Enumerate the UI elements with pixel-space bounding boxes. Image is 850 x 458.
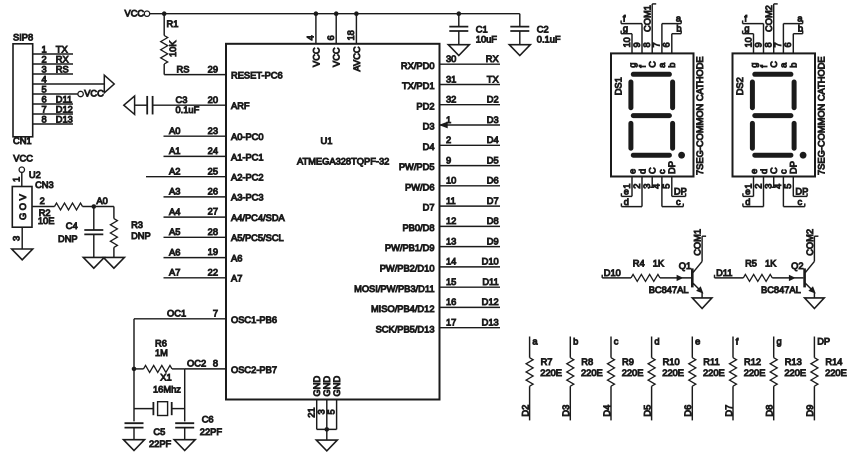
svg-text:A6: A6 <box>169 247 180 257</box>
svg-text:9: 9 <box>632 42 642 47</box>
svg-text:e: e <box>624 187 629 197</box>
svg-text:A5: A5 <box>169 227 180 237</box>
wire net D10 pin 14 <box>440 257 501 267</box>
svg-text:R5: R5 <box>745 258 757 268</box>
svg-text:MISO/PB4/D12: MISO/PB4/D12 <box>371 304 435 314</box>
svg-text:DNP: DNP <box>58 234 78 244</box>
svg-text:10: 10 <box>743 37 753 47</box>
ground at Q1 emitter <box>692 298 712 309</box>
svg-text:9: 9 <box>753 42 763 47</box>
svg-text:A5/PC5/SCL: A5/PC5/SCL <box>231 233 284 243</box>
ground under C4 <box>83 257 104 268</box>
svg-text:D11: D11 <box>56 94 72 104</box>
svg-text:D8: D8 <box>765 405 775 417</box>
svg-text:A6: A6 <box>231 253 242 263</box>
svg-text:29: 29 <box>208 64 218 74</box>
svg-text:C1: C1 <box>476 24 488 34</box>
transistor Q2 BC847AL <box>761 236 815 298</box>
svg-text:10E: 10E <box>38 216 55 226</box>
svg-text:PB0/D8: PB0/D8 <box>402 223 434 233</box>
svg-text:CN3: CN3 <box>35 180 54 190</box>
wire net D3 pin 1 <box>440 115 501 128</box>
svg-text:SCK/PB5/D13: SCK/PB5/D13 <box>376 324 435 334</box>
resistor R9 220E with node c and wire D4 <box>602 336 644 420</box>
node e flag DS1 <box>621 177 632 197</box>
svg-text:R11: R11 <box>703 357 719 367</box>
svg-text:a: a <box>657 62 667 68</box>
svg-text:8: 8 <box>42 114 47 124</box>
segments digit 8 of DS1 <box>631 74 685 158</box>
resistor R1 10K <box>161 14 179 75</box>
svg-text:c: c <box>779 169 789 174</box>
svg-text:Q1: Q1 <box>679 261 691 271</box>
svg-text:1K: 1K <box>653 258 665 268</box>
node a flag DS1 <box>662 13 682 53</box>
U1 bottom pin 5 GND <box>326 376 342 430</box>
svg-text:ATMEGA328TQPF-32: ATMEGA328TQPF-32 <box>297 156 389 166</box>
svg-text:C2: C2 <box>537 24 549 34</box>
svg-text:5: 5 <box>783 184 793 189</box>
wire OC2 <box>185 359 226 369</box>
svg-text:b: b <box>798 24 803 34</box>
wire RX at CN1 <box>33 54 73 64</box>
node g flag DS1 <box>621 24 632 54</box>
svg-text:b: b <box>667 63 677 68</box>
svg-text:18: 18 <box>346 30 356 40</box>
resistor R12 220E with node f and wire D7 <box>724 336 766 420</box>
svg-text:21: 21 <box>307 407 317 417</box>
svg-text:R4: R4 <box>633 258 645 268</box>
svg-text:D7: D7 <box>423 203 435 213</box>
wire ARF to chip <box>153 104 226 106</box>
svg-text:COM2: COM2 <box>764 5 774 32</box>
DS2 bottom pin numbers <box>743 184 793 189</box>
svg-text:20: 20 <box>208 95 218 105</box>
svg-text:GND: GND <box>332 376 342 397</box>
svg-text:OSC1-PB6: OSC1-PB6 <box>231 315 277 325</box>
svg-text:a: a <box>779 62 789 68</box>
pin C stub DS2 <box>772 177 776 188</box>
svg-text:8: 8 <box>642 42 652 47</box>
svg-text:220E: 220E <box>784 368 806 378</box>
svg-text:220E: 220E <box>744 368 766 378</box>
transistor Q1 BC847AL <box>649 236 703 298</box>
svg-text:X1: X1 <box>160 372 171 382</box>
wire A0 <box>164 126 227 136</box>
U1 bottom pin 3 GND <box>317 376 333 430</box>
svg-text:ARF: ARF <box>231 101 250 111</box>
wire net D8 pin 12 <box>440 216 501 226</box>
wire net D6 pin 10 <box>440 176 501 186</box>
svg-text:6: 6 <box>42 94 47 104</box>
svg-text:220E: 220E <box>622 368 644 378</box>
svg-text:C5: C5 <box>153 427 165 437</box>
svg-text:a: a <box>797 13 803 23</box>
svg-text:28: 28 <box>208 227 218 237</box>
resistor R14 220E with node DP and wire D9 <box>805 336 847 420</box>
svg-text:f: f <box>744 13 747 23</box>
svg-text:7SEG-COMMON CATHODE: 7SEG-COMMON CATHODE <box>816 56 826 175</box>
svg-text:A7: A7 <box>169 268 180 278</box>
svg-text:1: 1 <box>11 177 21 182</box>
svg-text:BC847AL: BC847AL <box>761 285 801 295</box>
resistor R10 220E with node d and wire D5 <box>642 336 684 420</box>
svg-text:D4: D4 <box>487 135 499 145</box>
capacitor C2 0.1uF <box>510 14 561 45</box>
svg-text:A4/PC4/SDA: A4/PC4/SDA <box>231 213 286 223</box>
svg-text:R12: R12 <box>744 357 761 367</box>
svg-text:0.1uF: 0.1uF <box>537 34 561 44</box>
svg-text:PD2: PD2 <box>416 101 434 111</box>
net COM1 at DS1 <box>643 4 657 54</box>
svg-text:DP: DP <box>789 161 799 174</box>
svg-text:GND: GND <box>322 376 332 397</box>
capacitor C3 0.1uF <box>135 95 200 115</box>
svg-text:7SEG-COMMON CATHODE: 7SEG-COMMON CATHODE <box>695 56 705 175</box>
wire D11 to R5 <box>715 268 744 278</box>
wire base of Q1 <box>660 276 691 281</box>
svg-text:22: 22 <box>208 267 218 277</box>
svg-text:C6: C6 <box>202 415 214 425</box>
svg-text:d: d <box>624 197 629 207</box>
node d flag DS2 <box>743 177 764 207</box>
capacitor C4 DNP <box>58 207 103 258</box>
svg-text:R1: R1 <box>167 19 179 29</box>
node g flag DS2 <box>743 24 754 54</box>
svg-text:RX: RX <box>56 54 69 64</box>
svg-text:D7: D7 <box>487 196 499 206</box>
svg-text:D9: D9 <box>805 405 815 417</box>
ground under C2 <box>509 45 530 56</box>
svg-text:10uF: 10uF <box>476 34 498 44</box>
svg-text:TX: TX <box>487 74 499 84</box>
node f flag DS1 <box>621 13 642 53</box>
svg-text:CN1: CN1 <box>13 136 32 146</box>
svg-text:TX/PD1: TX/PD1 <box>402 81 435 91</box>
capacitor C5 22PF <box>125 423 172 449</box>
svg-text:f: f <box>736 336 739 346</box>
svg-text:6: 6 <box>326 35 336 40</box>
svg-text:RX/PD0: RX/PD0 <box>401 61 435 71</box>
ground at Q2 emitter <box>805 298 825 309</box>
svg-text:D13: D13 <box>56 114 73 124</box>
svg-text:25: 25 <box>208 166 218 176</box>
U1 top pin 4 VCC <box>306 11 322 67</box>
resistor R5 1K <box>743 258 777 281</box>
svg-text:D6: D6 <box>683 405 693 417</box>
svg-text:3: 3 <box>42 64 47 74</box>
svg-text:26: 26 <box>208 187 218 197</box>
svg-text:TX: TX <box>56 44 68 54</box>
svg-text:4: 4 <box>42 74 47 84</box>
svg-text:D9: D9 <box>487 236 499 246</box>
svg-text:DP: DP <box>674 187 687 197</box>
resistor R3 DNP <box>110 207 150 258</box>
net COM2 at Q2 collector <box>805 229 819 256</box>
svg-text:A0: A0 <box>96 196 107 206</box>
svg-text:R13: R13 <box>785 357 802 367</box>
svg-text:5: 5 <box>326 409 336 414</box>
DS1 top pin numbers <box>622 37 672 47</box>
svg-text:c: c <box>614 336 619 346</box>
DS1 bottom pin numbers <box>622 184 672 189</box>
svg-text:c: c <box>657 169 667 174</box>
U1 top pin 6 VCC <box>326 11 342 67</box>
svg-text:RS: RS <box>56 64 69 74</box>
svg-text:3: 3 <box>317 409 327 414</box>
capacitor C1 10uF <box>449 14 497 45</box>
svg-text:OC2: OC2 <box>187 359 206 369</box>
svg-text:D10: D10 <box>604 268 621 278</box>
connector U2 CN3 <box>12 170 53 227</box>
svg-text:C: C <box>769 167 779 174</box>
svg-text:D5: D5 <box>487 155 499 165</box>
wire D10 to R4 <box>602 268 631 278</box>
svg-text:D7: D7 <box>724 405 734 417</box>
svg-text:14: 14 <box>446 257 456 267</box>
ground under C6 <box>174 440 195 451</box>
svg-text:D3: D3 <box>561 405 571 417</box>
resistor R8 220E with node b and wire D3 <box>561 336 603 420</box>
resistor R4 1K <box>631 258 665 281</box>
svg-text:A7: A7 <box>231 274 242 284</box>
node d flag DS1 <box>621 177 642 207</box>
svg-text:R6: R6 <box>155 338 167 348</box>
svg-text:30: 30 <box>446 54 456 64</box>
svg-text:D3: D3 <box>423 122 435 132</box>
svg-text:g: g <box>623 24 628 34</box>
svg-text:C: C <box>769 61 779 68</box>
svg-text:f: f <box>623 13 626 23</box>
svg-text:c: c <box>676 197 681 207</box>
wire A6 <box>164 247 227 257</box>
svg-text:g: g <box>627 63 637 68</box>
resistor R13 220E with node g and wire D8 <box>765 336 807 420</box>
svg-text:g: g <box>749 63 759 68</box>
power VCC at CN3 <box>11 154 33 187</box>
svg-text:COM1: COM1 <box>693 229 703 256</box>
svg-text:e: e <box>695 336 700 346</box>
svg-text:VCC: VCC <box>13 154 33 164</box>
svg-text:220E: 220E <box>581 368 603 378</box>
node DP flag DS1 <box>672 177 687 197</box>
segments digit 8 of DS2 <box>752 74 806 158</box>
svg-text:VCC: VCC <box>311 47 321 67</box>
svg-text:2: 2 <box>753 184 763 189</box>
crystal X1 16Mhz <box>134 369 185 422</box>
U1 top pin 18 AVCC <box>346 11 362 71</box>
svg-text:Q2: Q2 <box>791 261 803 271</box>
resistor R6 1M <box>132 338 185 372</box>
node b flag DS2 <box>793 24 803 54</box>
svg-text:1: 1 <box>42 44 47 54</box>
wire A5 <box>164 227 227 237</box>
svg-text:5: 5 <box>662 184 672 189</box>
wire net D2 pin 32 <box>440 95 501 105</box>
wire A2 <box>146 167 226 177</box>
wire net D13 pin 17 <box>440 318 501 328</box>
svg-text:DP: DP <box>667 161 677 174</box>
svg-text:d: d <box>654 336 659 346</box>
svg-text:27: 27 <box>208 207 218 217</box>
svg-text:COM2: COM2 <box>805 229 815 256</box>
svg-text:32: 32 <box>446 95 456 105</box>
svg-text:31: 31 <box>446 74 456 84</box>
svg-text:e: e <box>627 169 637 174</box>
svg-text:220E: 220E <box>662 368 684 378</box>
svg-text:A3-PC3: A3-PC3 <box>231 193 264 203</box>
svg-text:2: 2 <box>40 196 45 206</box>
connector CN1 SIP8 <box>13 33 47 147</box>
svg-text:RX: RX <box>486 54 499 64</box>
svg-text:6: 6 <box>783 42 793 47</box>
svg-text:g: g <box>744 24 749 34</box>
svg-text:2: 2 <box>632 184 642 189</box>
U1 right pin names <box>354 61 434 335</box>
svg-text:b: b <box>573 336 578 346</box>
svg-text:220E: 220E <box>540 368 562 378</box>
node DP flag DS2 <box>793 177 808 197</box>
node b flag DS1 <box>672 24 682 54</box>
wire TX at CN1 <box>33 44 73 54</box>
svg-text:b: b <box>676 24 681 34</box>
wire net D4 pin 2 <box>440 135 501 145</box>
svg-text:3: 3 <box>12 236 22 241</box>
node f flag DS2 <box>743 13 764 53</box>
svg-text:SIP8: SIP8 <box>13 33 33 43</box>
svg-text:PW/PD5: PW/PD5 <box>399 162 435 172</box>
wire net D11 pin 15 <box>440 277 501 287</box>
svg-text:COM1: COM1 <box>643 5 653 32</box>
display DS2 7SEG-COMMON CATHODE body <box>733 53 827 176</box>
svg-text:c: c <box>798 197 803 207</box>
svg-text:a: a <box>676 13 682 23</box>
svg-text:22PF: 22PF <box>200 427 223 437</box>
wire D11 at CN1 <box>33 94 73 104</box>
svg-text:D8: D8 <box>487 216 499 226</box>
svg-text:A2-PC2: A2-PC2 <box>231 173 264 183</box>
wire net D7 pin 11 <box>440 196 501 206</box>
svg-text:f: f <box>637 65 647 68</box>
svg-text:OC1: OC1 <box>167 309 186 319</box>
svg-text:DNP: DNP <box>131 231 151 241</box>
svg-text:220E: 220E <box>703 368 725 378</box>
svg-text:VCC: VCC <box>332 47 342 67</box>
svg-text:VCC: VCC <box>125 9 145 19</box>
svg-text:11: 11 <box>446 196 456 206</box>
svg-text:17: 17 <box>446 318 456 328</box>
node a flag DS2 <box>783 13 803 53</box>
pin C stub DS1 <box>650 177 654 188</box>
svg-text:22PF: 22PF <box>149 439 172 449</box>
wire A4 <box>164 207 227 217</box>
svg-text:12: 12 <box>446 216 456 226</box>
svg-text:D12: D12 <box>56 104 73 114</box>
wire net D12 pin 16 <box>440 297 501 307</box>
node c flag DS2 <box>783 177 804 207</box>
node c flag DS1 <box>662 177 683 207</box>
svg-text:7: 7 <box>213 309 218 319</box>
power VCC at CN1 pin5 <box>33 89 104 99</box>
svg-text:D4: D4 <box>423 142 435 152</box>
svg-text:D13: D13 <box>482 318 499 328</box>
ground for GND pins <box>316 427 337 451</box>
port flag ARF input triangle <box>124 96 135 114</box>
svg-text:DS2: DS2 <box>735 77 745 95</box>
svg-text:C: C <box>648 167 658 174</box>
svg-text:23: 23 <box>208 126 218 136</box>
ic U1 ATMEGA328TQPF-32 body <box>226 44 440 400</box>
svg-text:A4: A4 <box>169 207 180 217</box>
svg-text:RS: RS <box>177 64 190 74</box>
svg-text:5: 5 <box>42 84 47 94</box>
svg-text:10: 10 <box>622 37 632 47</box>
svg-text:7: 7 <box>773 42 783 47</box>
svg-text:G O V: G O V <box>18 193 28 220</box>
svg-text:15: 15 <box>446 277 456 287</box>
svg-text:AVCC: AVCC <box>352 46 362 71</box>
svg-text:A3: A3 <box>169 187 180 197</box>
svg-text:PW/D6: PW/D6 <box>405 182 434 192</box>
svg-text:24: 24 <box>208 146 218 156</box>
svg-text:2: 2 <box>446 135 451 145</box>
svg-text:d: d <box>745 197 750 207</box>
port pin4 arrow flag <box>33 75 115 93</box>
svg-text:0.1uF: 0.1uF <box>176 105 200 115</box>
wire RS at CN1 <box>33 64 73 74</box>
svg-text:e: e <box>749 169 759 174</box>
svg-text:A1: A1 <box>169 146 180 156</box>
wire D13 at CN1 <box>33 114 73 124</box>
DS2 top pin numbers <box>743 37 793 47</box>
svg-text:220E: 220E <box>825 368 847 378</box>
svg-text:7: 7 <box>652 42 662 47</box>
resistor R11 220E with node e and wire D6 <box>683 336 725 420</box>
svg-text:1M: 1M <box>155 348 168 358</box>
svg-text:D11: D11 <box>716 268 732 278</box>
svg-text:R14: R14 <box>825 357 842 367</box>
net COM1 at Q1 collector <box>693 229 707 256</box>
svg-text:DP: DP <box>795 187 808 197</box>
svg-text:R10: R10 <box>663 357 680 367</box>
svg-text:C: C <box>648 61 658 68</box>
svg-text:DP: DP <box>817 336 830 346</box>
svg-text:f: f <box>759 65 769 68</box>
svg-text:9: 9 <box>446 155 451 165</box>
node e flag DS2 <box>743 177 754 197</box>
wire VCC rail <box>150 11 520 16</box>
svg-text:A0-PC0: A0-PC0 <box>231 132 264 142</box>
svg-text:VCC: VCC <box>84 89 104 99</box>
svg-text:A2: A2 <box>169 167 180 177</box>
svg-text:MOSI/PW/PB3/D11: MOSI/PW/PB3/D11 <box>354 284 434 294</box>
wire net D9 pin 13 <box>440 236 501 246</box>
svg-text:16Mhz: 16Mhz <box>153 385 181 395</box>
svg-text:GND: GND <box>312 376 322 397</box>
svg-text:7: 7 <box>42 104 47 114</box>
resistor R2 10E <box>32 196 83 226</box>
svg-text:D2: D2 <box>487 95 499 105</box>
svg-text:8: 8 <box>764 42 774 47</box>
svg-text:2: 2 <box>42 54 47 64</box>
svg-text:6: 6 <box>662 42 672 47</box>
svg-text:g: g <box>777 336 782 346</box>
power VCC top-left <box>125 9 150 19</box>
svg-text:D11: D11 <box>482 277 498 287</box>
wire A1 <box>164 146 227 156</box>
svg-text:OSC2-PB7: OSC2-PB7 <box>231 365 277 375</box>
svg-text:PW/PB2/D10: PW/PB2/D10 <box>380 264 435 274</box>
